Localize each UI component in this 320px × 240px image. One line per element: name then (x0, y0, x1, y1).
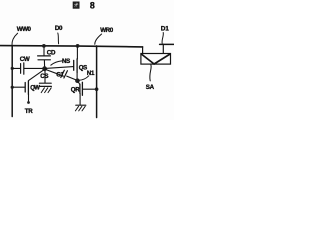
leader WR0 (95, 34, 102, 44)
node NS star dot (42, 66, 47, 71)
svg-text:D0: D0 (55, 25, 63, 32)
capacitor CD plates (38, 56, 51, 60)
svg-text:C1: C1 (56, 72, 64, 79)
svg-text:QR: QR (71, 86, 81, 93)
SA bowtie diagonal left (141, 54, 154, 64)
title glyph 図 (73, 2, 79, 8)
wire D0 bus (0, 46, 143, 47)
svg-text:8: 8 (90, 1, 95, 11)
svg-text:TR: TR (25, 108, 33, 115)
wire CW left (12, 67, 20, 69)
terminal dot TR (27, 101, 30, 104)
svg-text:NS: NS (62, 58, 70, 65)
svg-text:D1: D1 (161, 25, 170, 32)
wire node to QS gate (45, 67, 73, 69)
wire WW0 vertical (11, 46, 13, 117)
svg-text:WW0: WW0 (17, 26, 32, 33)
node dot N1 (75, 78, 80, 83)
node dot on bus at CD (42, 44, 46, 48)
transistor QW channel bar (27, 81, 29, 94)
wire QW source down (28, 94, 30, 101)
svg-text:CS: CS (40, 73, 48, 80)
wire QS drain stub from bus (76, 46, 78, 59)
transistor QS gate bar (73, 60, 75, 70)
ground hatch CS (41, 88, 51, 93)
transistor QR gate bar (81, 82, 83, 95)
transistor QS channel bar (76, 59, 78, 73)
wire QR source down (79, 93, 81, 105)
leader SA (150, 65, 151, 81)
leader D1 (162, 33, 163, 44)
transistor QR channel bar (79, 84, 81, 93)
wire QR gate to WR0 (83, 88, 97, 90)
capacitor CS plates (39, 83, 51, 86)
ground bar QR (76, 104, 86, 106)
wire WR0 vertical (96, 46, 98, 118)
wire C1 to node N1 (67, 76, 78, 80)
wire node to CS (44, 71, 46, 83)
svg-text:QW: QW (30, 86, 40, 92)
wire CW right to node (24, 67, 43, 69)
leader D0 (57, 33, 60, 44)
wire D1 line (160, 43, 174, 45)
capacitor C1 plates (61, 70, 68, 78)
wire D1 stub to SA box (162, 44, 164, 53)
svg-text:SA: SA (146, 84, 155, 91)
node dot on WW0 at QW gate (11, 86, 14, 89)
SA bowtie diagonal right (154, 54, 170, 64)
wire N1 to QR channel (78, 81, 80, 84)
wire node to C1 (45, 69, 61, 75)
leader N1 (79, 76, 89, 80)
wire QW drain diagonal to node (29, 70, 44, 81)
node dot on bus at QS (76, 44, 80, 48)
node dot on WR0 (95, 87, 99, 91)
svg-text:WR0: WR0 (100, 27, 114, 34)
leader NS (51, 61, 62, 65)
leader WW0 (12, 33, 18, 45)
wire CD to node NS (43, 60, 45, 67)
node dot on WW0 at CW (11, 67, 14, 70)
svg-text:N1: N1 (87, 70, 95, 77)
sense amp SA box (141, 54, 171, 65)
svg-text:CW: CW (20, 56, 30, 63)
transistor QW gate bar (24, 83, 26, 93)
wire bus drop to SA box (142, 47, 144, 54)
wire QS source down (76, 72, 78, 79)
wire CD stub from bus (43, 46, 45, 55)
capacitor CW plates (21, 63, 24, 74)
wire WW0 to QW gate (12, 86, 24, 88)
ground hatch QR (75, 106, 85, 111)
